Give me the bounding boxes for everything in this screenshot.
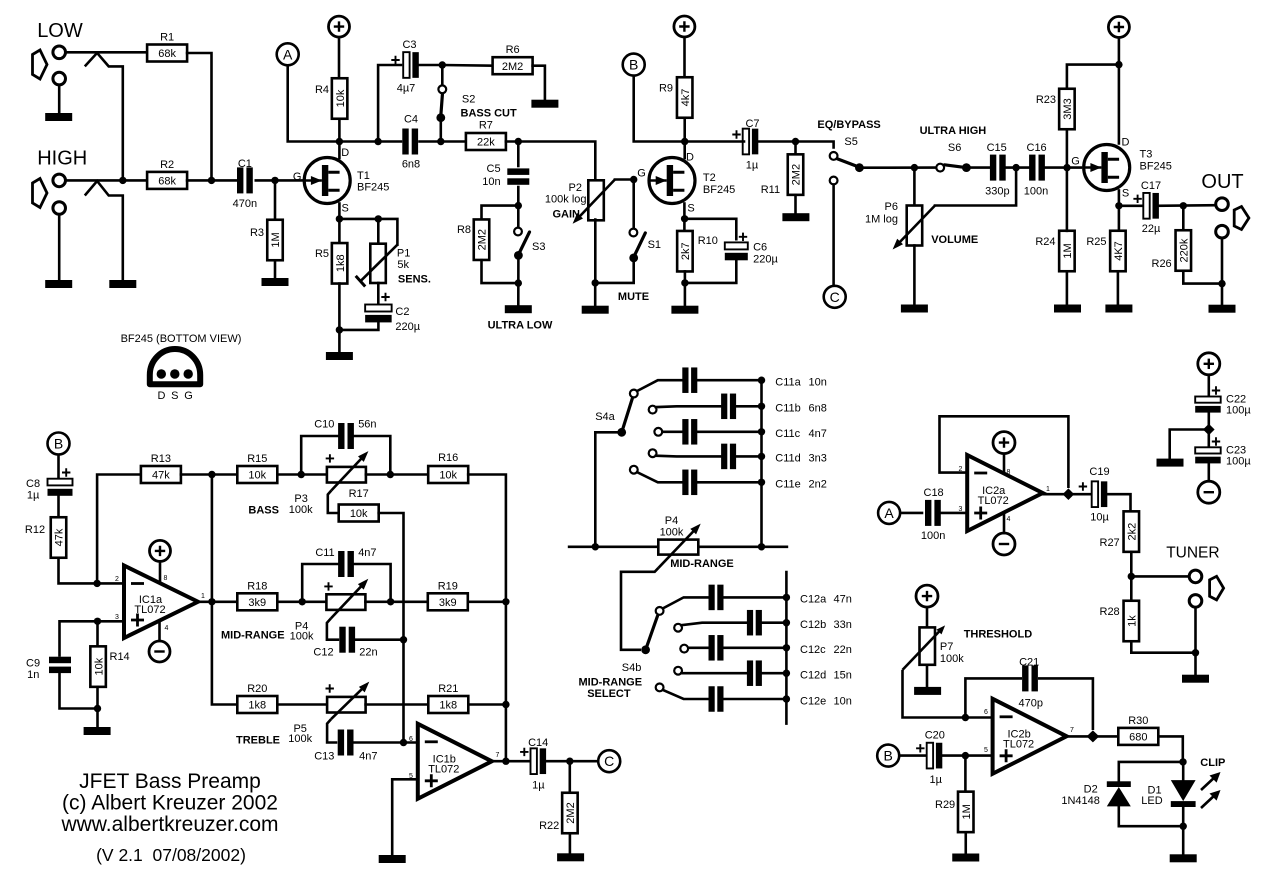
wire P6 wiper to C15/C16 [935,168,1016,206]
wire C18 to IC2a [941,512,967,515]
svg-text:R22: R22 [539,820,559,832]
junction R29 [962,752,969,759]
wire R25 to ground [1117,271,1120,304]
svg-text:220µ: 220µ [753,254,778,266]
svg-text:100k log: 100k log [545,194,587,206]
potentiometer P4 body [326,594,365,610]
P5 wiper arrowhead [359,682,369,693]
svg-text:1µ: 1µ [532,780,545,792]
switch S2 pole [436,113,445,122]
wire supply to R23 [1067,65,1119,89]
junction treble row / bus [502,701,509,708]
svg-text:C12b: C12b [800,619,826,631]
svg-text:1k8: 1k8 [335,254,347,272]
ground T1 source [326,352,353,360]
svg-text:10n: 10n [834,695,852,707]
svg-text:ULTRA LOW: ULTRA LOW [488,320,553,332]
switch S5 lever [837,159,857,167]
svg-text:SELECT: SELECT [587,688,631,700]
TUNER jack sleeve contact [1189,595,1202,608]
wire R4 to drain row [338,119,341,158]
svg-text:10k: 10k [439,470,457,482]
svg-text:TL072: TL072 [428,763,459,775]
switch S6 pole [962,163,971,172]
capacitor C21 470p [1022,665,1038,691]
svg-text:6n8: 6n8 [402,159,420,171]
junction C13/bus [400,739,407,746]
wire R6 to ground [533,66,545,100]
switch S1 pole [629,254,638,263]
wire C12 bank bus [785,572,788,724]
wire C12a to bus [724,596,787,599]
wire R19 to bus [468,600,506,603]
junction IC2a output (diamond) [1063,488,1075,500]
wire C3 branch up [378,65,401,142]
svg-text:B: B [629,57,638,73]
ground LOW jack [45,113,72,121]
junction R11 [792,138,799,145]
wire R24 to ground [1066,271,1069,304]
transistor T2 BF245 [648,158,695,204]
wire to S2 contact [441,65,444,84]
resistor R22 [539,793,578,834]
switch S4a lever [622,399,633,433]
wire node B to C20 [899,754,927,757]
-V supply IC1a [149,641,170,662]
junction R23 supply [1115,61,1122,68]
svg-text:68k: 68k [158,176,176,188]
svg-text:P2: P2 [569,182,582,194]
junction P6 top [911,164,918,171]
svg-text:G: G [293,171,302,183]
junction S4a/P4 row [592,543,599,550]
potentiometer P2 body [588,180,604,220]
svg-text:D: D [341,147,349,159]
wire R10 to ground [684,271,687,305]
potentiometer P6 body [907,206,923,246]
wire R13 to R15 [181,473,238,476]
switch S4a contact e [630,466,638,474]
svg-text:TUNER: TUNER [1166,545,1219,562]
wire C1 to T1 gate [256,179,303,182]
P7 wiper [903,629,943,670]
P6 wiper arrowhead [893,239,903,250]
resistor R17 [339,488,379,522]
svg-text:HIGH: HIGH [37,148,87,170]
polarity + C23 [1212,437,1220,445]
junction R1/R2 [208,177,215,184]
node B (clip input) [877,745,899,767]
op-amp IC1a TL072 [124,566,198,639]
wire C11d to bus [737,455,762,458]
svg-text:3M3: 3M3 [1062,98,1074,119]
wire to R14 [96,621,99,648]
svg-text:R14: R14 [110,651,130,663]
svg-text:100k: 100k [288,733,312,745]
svg-text:D: D [1122,136,1130,148]
switch S4a contact c [654,428,662,436]
svg-text:2M2: 2M2 [477,229,489,250]
ground MUTE [582,306,609,314]
polarity + C17 [1133,195,1141,203]
capacitor C12c 22n [709,635,724,661]
svg-text:LED: LED [1141,795,1162,807]
junction D1/D2 bottom [1180,823,1187,830]
capacitor C19 10u [1092,481,1108,507]
capacitor C12a 47n [709,585,724,611]
wire to P1 body [377,219,380,244]
svg-text:R4: R4 [315,84,329,96]
capacitor C12d 15n [747,660,762,686]
junction C12b bus [783,619,790,626]
wire S4b contact to C12c [688,646,708,649]
resistor R18 [237,581,277,611]
svg-text:7: 7 [1070,727,1074,734]
wire R21 to bus [468,703,506,706]
wire R27 to R28 [1130,552,1133,601]
svg-text:R27: R27 [1100,537,1120,549]
capacitor C18 100n [925,500,941,526]
svg-text:D: D [686,152,694,164]
switch S2 lever [441,95,443,117]
wire to TUNER jack [1131,575,1189,578]
wire C11b to bus [737,405,762,408]
polarity + C19 [1079,482,1087,490]
svg-text:15n: 15n [834,670,852,682]
svg-text:1M: 1M [270,232,282,247]
wire P4 wiper to S4b pole [621,568,659,650]
svg-text:C: C [830,289,840,305]
svg-text:C19: C19 [1089,466,1109,478]
svg-text:MID-RANGE: MID-RANGE [221,630,285,642]
switch S5 contact lower [830,177,838,185]
wire OUT sleeve to ground [1221,238,1224,305]
P3 wiper [331,455,364,490]
svg-text:S2: S2 [462,94,475,106]
svg-text:1M log: 1M log [865,214,898,226]
svg-text:C11c: C11c [775,428,800,440]
wire C4 to R7 [420,140,466,143]
P2 wiper [577,180,615,220]
svg-text:22µ: 22µ [1142,223,1161,235]
svg-text:22k: 22k [477,137,495,149]
wire S4b contact to C12b [681,623,746,626]
svg-text:C12c: C12c [800,644,826,656]
svg-text:100k: 100k [940,653,964,665]
ground R22 [557,853,584,861]
svg-text:S: S [687,203,694,215]
svg-text:C15: C15 [987,142,1007,154]
svg-text:1k8: 1k8 [248,700,266,712]
wire supply to T3 drain [1118,38,1121,144]
potentiometer P3 body [327,467,366,483]
TUNER jack plug symbol [1210,576,1224,600]
svg-text:B: B [54,436,63,452]
resistor R24 [1035,231,1074,272]
resistor R30 [1118,715,1158,745]
svg-text:R8: R8 [457,224,471,236]
P4 (mid-range) wiper [659,528,697,568]
junction LOW switch / HIGH line [119,177,126,184]
svg-text:6: 6 [409,736,413,743]
LOW jack plug symbol [33,50,48,79]
svg-text:1n: 1n [27,669,39,681]
svg-text:(V 2.1 07/08/2002): (V 2.1 07/08/2002) [96,845,246,865]
+V supply IC1a [150,540,171,561]
capacitor C2 220u [365,305,392,323]
junction T1 drain [336,138,343,145]
wire left bus [212,475,238,705]
potentiometer P1 body [370,244,386,283]
switch S4a contact b [649,406,657,414]
svg-text:CLIP: CLIP [1200,757,1225,769]
svg-text:www.albertkreuzer.com: www.albertkreuzer.com [60,813,278,836]
wire C11 bank bus [760,380,763,547]
capacitor C12e 10n [709,686,724,712]
ground R11 [782,213,809,221]
svg-text:C14: C14 [528,737,548,749]
svg-text:22n: 22n [834,644,852,656]
svg-text:8: 8 [1007,469,1011,476]
svg-text:47n: 47n [834,594,852,606]
capacitor C23 100u [1195,447,1221,463]
svg-text:LOW: LOW [37,20,83,42]
wire T2 source down [683,204,686,232]
wire T1 source down [338,204,341,244]
svg-text:220µ: 220µ [395,321,420,333]
svg-text:T3: T3 [1140,149,1153,161]
svg-text:4K7: 4K7 [1113,241,1125,261]
polarity + C14 [520,748,528,756]
switch S3 contact [514,228,522,236]
resistor R25 [1086,231,1125,272]
wire S3 to ground [517,255,520,305]
capacitor C13 4n7 [338,730,354,756]
wire gate to S1 contact [632,180,635,228]
wire C6 bottom [685,255,736,283]
svg-text:C21: C21 [1019,657,1039,669]
capacitor C5 10n [507,168,529,184]
switch S3 pole [514,251,523,260]
wire C15 to C16 [1006,166,1030,169]
wire P6 to ground [913,246,916,305]
junction C11c bus [758,428,765,435]
wire C12c to bus [724,646,787,649]
P4 wiper tail [327,618,339,639]
capacitor C11 4n7 [338,551,354,577]
svg-text:C16: C16 [1027,142,1047,154]
wire P7 wiper to IC2b inverting input [903,670,966,718]
wire P1 to C2 [377,283,380,304]
svg-text:1µ: 1µ [27,490,40,502]
wire R7 to P2 [506,142,595,181]
wire S4a contact to C11b [656,405,721,408]
switch S4b contact d [674,667,682,675]
HIGH jack switch contact [85,181,123,280]
wire IC2a feedback loop [940,416,1069,488]
svg-text:R7: R7 [479,120,493,132]
svg-text:R18: R18 [247,581,267,593]
svg-text:EQ/BYPASS: EQ/BYPASS [817,119,880,131]
polarity + C7 [732,130,740,138]
junction C11e bus [758,479,765,486]
svg-text:R20: R20 [247,683,267,695]
svg-text:10µ: 10µ [1090,512,1109,524]
capacitor C6 220u [725,242,748,260]
svg-text:BF245: BF245 [357,182,389,194]
ground P7 [914,687,941,695]
junction R22 [566,758,573,765]
svg-text:C12d: C12d [800,670,826,682]
P6 wiper [897,206,935,246]
svg-text:C11e: C11e [775,479,800,491]
svg-text:C: C [604,753,614,769]
+V supply T1 [329,16,350,37]
junction P2/S1 ground [592,279,599,286]
svg-text:100k: 100k [290,630,314,642]
svg-text:R17: R17 [349,488,369,500]
svg-text:R28: R28 [1100,606,1120,618]
wire drain to C4 [339,140,401,143]
resistor R5 [315,243,347,283]
P5 wiper tail [327,719,337,742]
-V supply C23 [1198,481,1220,503]
svg-text:SENS.: SENS. [398,274,431,286]
polarity + C2 [381,293,389,301]
junction C12e bus [783,695,790,702]
junction C12/bus [400,636,407,643]
svg-text:3k9: 3k9 [248,597,266,609]
svg-text:P4: P4 [665,515,678,527]
LOW jack sleeve contact [53,72,66,85]
svg-text:2M2: 2M2 [502,61,523,73]
svg-text:3: 3 [115,614,119,621]
svg-text:C9: C9 [26,658,40,670]
wire junction to R6 [442,64,492,67]
OUT jack tip contact [1216,198,1229,211]
+V supply P7 [916,585,938,607]
svg-text:R12: R12 [25,524,45,536]
svg-text:C2: C2 [395,306,409,318]
wire S4a pole to P4 row [595,432,621,547]
junction D1 top [1179,758,1186,765]
wire S1 to mute ground node [595,258,634,283]
svg-text:3k9: 3k9 [439,597,457,609]
svg-text:R15: R15 [247,453,267,465]
wire C2 bottom [339,318,378,330]
svg-text:BASS: BASS [248,505,279,517]
svg-text:MUTE: MUTE [618,291,649,303]
wire S4a contact to C11d [656,454,721,457]
capacitor C20 1u [927,743,943,769]
junction P1 top [375,215,382,222]
svg-text:P1: P1 [397,248,410,260]
wire S4a contact to C11a [637,380,682,391]
resistor R27 [1100,511,1140,551]
svg-text:4µ7: 4µ7 [397,83,416,95]
svg-text:56n: 56n [358,419,376,431]
wire IC2b feedback loop [965,678,1093,730]
svg-text:R19: R19 [438,581,458,593]
wire P7 to ground [926,665,929,687]
junction IC1b output [502,758,509,765]
capacitor C12 22n [339,627,355,653]
ground clip [1170,854,1197,862]
wire to R11 [794,142,797,155]
svg-text:R30: R30 [1128,715,1148,727]
svg-text:6n8: 6n8 [809,403,827,415]
capacitor C10 56n [338,423,354,449]
polarity + P4 [324,582,332,590]
wire right bus [468,475,506,762]
wire S2 pole to row [439,118,442,142]
svg-text:G: G [637,168,646,180]
+V supply T3 [1108,17,1129,38]
HIGH jack tip contact [53,174,66,187]
transistor T1 BF245 [303,158,350,204]
svg-text:S3: S3 [532,241,545,253]
svg-text:C6: C6 [753,242,767,254]
wire source to P1 wiper hook [339,219,397,245]
switch S1 contact [630,229,638,237]
svg-text:100n: 100n [921,530,945,542]
wire source to C6 [685,219,737,239]
junction T1 source [336,215,343,222]
wire source to C17 [1119,205,1144,208]
svg-text:5k: 5k [397,259,409,271]
junction R3/gate [271,177,278,184]
junction C10 right [387,471,394,478]
capacitor C3 4u7 [403,52,419,78]
junction IC2b inverting input [962,714,969,721]
svg-text:S1: S1 [648,239,661,251]
wire +V to P7 [926,607,929,627]
resistor R29 [935,792,973,833]
wire node B to C8 [57,455,60,480]
junction R10/C6 [681,279,688,286]
svg-text:10k: 10k [335,89,347,107]
junction C12d bus [783,670,790,677]
resistor R13 [141,453,181,483]
svg-text:C17: C17 [1141,180,1161,192]
node A (T1 drain out) [277,43,299,65]
wire S5 to node C [832,185,835,286]
junction OUT ground [1218,280,1225,287]
wire +V to IC1a [159,562,162,583]
svg-text:R21: R21 [438,683,458,695]
wire C19 to R27 [1104,494,1130,512]
wire D1 top [1182,762,1185,780]
switch S1 lever [635,233,646,256]
node B (tone input) [48,433,70,455]
svg-text:4: 4 [1007,516,1011,523]
svg-text:BASS CUT: BASS CUT [461,108,518,120]
wire C12d to bus [762,672,786,675]
+V supply T2 [674,16,695,37]
capacitor C12b 33n [747,610,762,636]
svg-text:R25: R25 [1086,236,1106,248]
svg-text:1k: 1k [1127,615,1139,627]
OUT jack plug symbol [1234,207,1249,230]
ground R24 [1054,305,1081,313]
wire C23 to -V [1208,463,1211,481]
wire R14 to ground [96,687,99,727]
svg-text:470n: 470n [233,198,257,210]
node C (EQ return) [824,286,846,308]
P2 wiper arrowhead [573,213,583,224]
wire R29 to ground [964,832,967,853]
P4 mid wiper arrowhead [690,524,700,535]
